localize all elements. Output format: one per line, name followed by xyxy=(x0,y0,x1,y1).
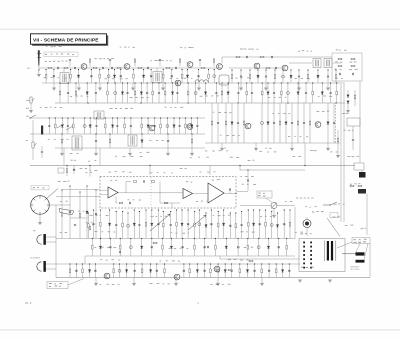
wire xyxy=(95,278,97,283)
junction BA12 xyxy=(163,211,164,212)
resistor TR0 xyxy=(231,75,233,79)
junction BA25 xyxy=(241,211,242,212)
resistor TR5 xyxy=(274,75,276,79)
resistor RL1 xyxy=(66,169,68,173)
junction BA33 xyxy=(289,209,290,210)
wire xyxy=(116,202,117,204)
wire lead MR4 xyxy=(237,103,239,143)
junction B2 xyxy=(75,82,76,83)
wire xyxy=(126,181,131,183)
diode D11 xyxy=(347,101,349,104)
value xyxy=(168,248,188,249)
wire lead BB13 xyxy=(225,239,227,257)
resistor BC17 xyxy=(210,269,212,273)
aux box left xyxy=(58,168,64,173)
ground xyxy=(328,280,332,282)
junction BB7 xyxy=(162,238,163,239)
wire lead LF0 xyxy=(61,190,63,239)
transformer T6 xyxy=(72,136,82,150)
capacitor C70 xyxy=(352,140,354,141)
diode B15 xyxy=(171,92,173,95)
wire xyxy=(221,57,223,64)
wire xyxy=(46,241,56,243)
refdes row xyxy=(94,57,114,60)
wire xyxy=(304,143,306,166)
wire lead BA30 xyxy=(271,212,273,239)
wire lead RC11 xyxy=(150,70,152,84)
diode BB17 xyxy=(267,246,269,249)
capacitor B25 xyxy=(251,93,253,94)
wire xyxy=(217,278,219,283)
resistor MR12 xyxy=(297,121,299,125)
resistor BA9 xyxy=(145,222,147,226)
resistor MR0 xyxy=(211,121,213,125)
capacitor BA1 xyxy=(92,224,94,225)
junction B35 xyxy=(330,82,331,83)
transistor Q2 xyxy=(124,64,130,70)
wire xyxy=(100,194,108,196)
diode BA7 xyxy=(133,223,135,226)
inductor L1 xyxy=(195,80,208,82)
wire top-right bus xyxy=(222,56,332,58)
junction TR4 xyxy=(265,69,266,70)
capacitor B6 xyxy=(114,92,117,95)
ground xyxy=(174,283,178,285)
transformer T1 xyxy=(60,73,69,84)
resistor B9 xyxy=(134,91,136,95)
junction RC18 xyxy=(214,69,215,70)
wire xyxy=(156,68,158,72)
junction BA30 xyxy=(271,211,272,212)
value row xyxy=(268,97,286,98)
wire stub xyxy=(179,61,181,67)
refdes row xyxy=(40,107,62,108)
wire lead BA8 xyxy=(138,212,140,239)
resistor R4 xyxy=(117,67,121,69)
wire xyxy=(61,148,63,153)
wire lead MR7 xyxy=(267,103,269,143)
wire lead BC13 xyxy=(183,264,185,278)
value row xyxy=(130,97,149,98)
wire link xyxy=(70,217,87,219)
wire lead BC27 xyxy=(282,264,284,278)
wire lead M17 xyxy=(166,118,168,134)
junction LF4 xyxy=(95,189,96,190)
junction M18 xyxy=(173,117,174,118)
resistor BA26 xyxy=(248,222,250,226)
wire lead RC4 xyxy=(90,70,92,84)
switch S3 xyxy=(57,124,73,130)
wire lead M9 xyxy=(112,118,114,134)
wire xyxy=(193,193,209,195)
capacitor TR8 xyxy=(298,76,300,77)
note 0 xyxy=(248,160,255,161)
switch S2 xyxy=(323,202,337,205)
wire lead B33 xyxy=(312,83,314,103)
capacitor C80 xyxy=(144,180,145,182)
value labels xyxy=(298,50,312,51)
ground xyxy=(326,88,330,90)
capacitor RC11 xyxy=(150,76,152,77)
note xyxy=(26,99,29,102)
junction M12 xyxy=(130,117,131,118)
capacitor CL1 xyxy=(73,169,75,170)
wire bus 3 xyxy=(55,102,345,104)
wire xyxy=(125,182,127,193)
capacitor BC1 xyxy=(75,270,77,271)
junction RL1 xyxy=(66,165,67,166)
junction M19 xyxy=(179,117,180,118)
junction RC10 xyxy=(143,69,144,70)
junction BA10 xyxy=(151,209,152,210)
junction BA3 xyxy=(109,209,110,210)
value row xyxy=(220,135,240,136)
junction bus3 xyxy=(335,102,336,103)
wire left riser xyxy=(55,237,57,278)
resistor RU5 xyxy=(179,59,181,62)
capacitor BA16 xyxy=(187,224,189,225)
capacitor CU0 xyxy=(69,60,71,61)
wire link xyxy=(56,196,100,198)
wire lead BB10 xyxy=(193,239,195,257)
wire lead B21 xyxy=(221,83,223,103)
diode B19 xyxy=(204,92,206,95)
wire lead TR5 xyxy=(274,70,276,83)
ground xyxy=(94,153,98,155)
wire lead BA20 xyxy=(210,210,212,239)
junction RC1 xyxy=(53,69,54,70)
value xyxy=(128,199,141,200)
resistor M1 xyxy=(55,124,57,128)
wire xyxy=(221,143,223,148)
wire xyxy=(198,83,200,88)
wire lead TR8 xyxy=(298,70,300,83)
junction BC10 xyxy=(150,263,151,264)
capacitor BA30 xyxy=(270,224,273,227)
transistor Q7 xyxy=(282,65,288,71)
wire lead BB17 xyxy=(268,239,270,257)
wire lead BB19 xyxy=(286,239,288,257)
junction BC22 xyxy=(247,263,248,264)
junction RC3 xyxy=(78,69,79,70)
junction BC19 xyxy=(225,263,226,264)
wire lead M20 xyxy=(184,118,186,134)
junction BB10 xyxy=(194,238,195,239)
note 1 xyxy=(71,159,76,162)
wire mid bus right xyxy=(205,142,340,144)
wire lead MR15 xyxy=(327,103,329,143)
wire lead BA2 xyxy=(99,210,101,239)
junction BA19 xyxy=(205,212,206,213)
ground xyxy=(190,153,194,155)
wire lead BA32 xyxy=(283,210,285,239)
op-amp U1A xyxy=(108,187,118,198)
refdes xyxy=(212,179,220,180)
junction BA20 xyxy=(211,209,212,210)
junction RC6 xyxy=(108,69,109,70)
resistor R21 xyxy=(260,56,264,58)
wire lead BA6 xyxy=(127,213,129,239)
wire xyxy=(327,143,329,148)
capacitor M7 xyxy=(95,126,97,127)
page bottom edge xyxy=(0,329,400,332)
capacitor C21 xyxy=(272,56,273,58)
jack J1 xyxy=(359,172,366,178)
wire jack drop xyxy=(366,194,368,236)
filter box xyxy=(332,53,362,81)
diode TR10 xyxy=(317,75,319,78)
resistor R83 xyxy=(119,202,122,204)
ground xyxy=(264,88,268,90)
junction BB13 xyxy=(226,238,227,239)
wire xyxy=(298,83,300,88)
resistor R90 xyxy=(350,185,354,187)
wire xyxy=(337,142,339,155)
junction M15 xyxy=(154,117,155,118)
junction RC2 xyxy=(70,69,71,70)
value xyxy=(241,231,255,232)
value xyxy=(211,284,231,285)
resistor R91 xyxy=(358,185,362,187)
junction M6 xyxy=(90,117,91,118)
wire bottom long bus xyxy=(56,277,370,279)
resistor R121 xyxy=(249,260,253,262)
junction M11 xyxy=(124,117,125,118)
value row xyxy=(288,136,308,137)
resistor B17 xyxy=(187,91,189,95)
ground xyxy=(60,153,64,155)
value xyxy=(99,284,119,285)
resistor MM2 xyxy=(109,139,111,143)
junction TR2 xyxy=(249,69,250,70)
antenna xyxy=(38,51,40,66)
junction bus3 xyxy=(87,102,88,103)
wire lead BC3 xyxy=(89,264,91,278)
wire xyxy=(159,182,161,189)
wire lead BC19 xyxy=(224,264,226,278)
wire lead BA7 xyxy=(133,210,135,239)
wire xyxy=(265,83,267,88)
refdes row xyxy=(316,111,329,112)
wire lead BC15 xyxy=(196,264,198,278)
capacitor M0 xyxy=(48,126,50,127)
note xyxy=(306,206,317,207)
potentiometer arrow P2 xyxy=(188,215,206,230)
capacitor C56 xyxy=(41,152,43,153)
junction M20 xyxy=(185,117,186,118)
junction M14 xyxy=(148,117,149,118)
value row xyxy=(44,77,67,78)
wire lead B22 xyxy=(227,83,229,103)
junction B17 xyxy=(188,82,189,83)
wire lead RC8 xyxy=(120,70,122,84)
wire lead MM3 xyxy=(141,134,143,148)
wire lead B27 xyxy=(267,83,269,103)
resistor R5 xyxy=(138,67,142,69)
transistor Q15 xyxy=(214,266,220,272)
refdes row xyxy=(120,47,135,48)
junction B29 xyxy=(281,82,282,83)
junction BC13 xyxy=(183,263,184,264)
wire lead M13 xyxy=(141,118,143,134)
junction B3 xyxy=(87,82,88,83)
capacitor BB9 xyxy=(182,247,184,248)
capacitor BC23 xyxy=(254,270,256,271)
transformer T5 xyxy=(94,111,104,119)
wire lead B20 xyxy=(215,83,217,103)
wire lead BC20 xyxy=(231,264,233,278)
wire xyxy=(229,67,282,69)
wire lead B6 xyxy=(114,83,116,103)
junction bus3 xyxy=(187,102,188,103)
wire lead M14 xyxy=(147,118,149,134)
junction BA6 xyxy=(127,212,128,213)
wire antenna lead xyxy=(38,66,40,71)
ground dial xyxy=(38,222,42,224)
ground xyxy=(132,283,136,285)
junction M17 xyxy=(167,117,168,118)
capacitor C3 xyxy=(103,67,104,69)
wire psu feed xyxy=(220,258,299,260)
diode M2 xyxy=(61,125,63,128)
wire lead BA14 xyxy=(176,210,178,239)
value labels xyxy=(240,49,258,50)
wire stub xyxy=(89,61,91,67)
value xyxy=(242,184,256,185)
refdes xyxy=(200,171,216,172)
potentiometer arrow P1 xyxy=(150,214,170,231)
resistor BB0 xyxy=(92,245,94,249)
junction M2 xyxy=(62,117,63,118)
value xyxy=(228,259,249,260)
value row xyxy=(48,138,69,141)
capacitor MR16 xyxy=(333,123,335,124)
wire lead RC6 xyxy=(108,70,110,84)
resistor B21 xyxy=(221,91,223,95)
wire lead BA0 xyxy=(87,213,89,239)
transformer T3 xyxy=(313,59,321,68)
diode BB8 xyxy=(170,246,172,249)
capacitor M5 xyxy=(83,125,86,128)
resistor LF0 xyxy=(61,212,63,216)
wire lead M3 xyxy=(67,118,69,134)
wire xyxy=(78,83,80,88)
junction BC6 xyxy=(119,263,120,264)
op-amp U1B xyxy=(183,189,193,199)
diode BA27 xyxy=(252,223,254,226)
wire lead MR10 xyxy=(285,103,287,143)
diode BC7 xyxy=(125,270,127,273)
junction BC25 xyxy=(269,263,270,264)
wire lead B10 xyxy=(140,83,142,103)
capacitor CU2 xyxy=(109,60,111,61)
wire lead MR16 xyxy=(333,103,335,143)
value row xyxy=(70,96,88,97)
capacitor M22 xyxy=(196,126,198,127)
junction B9 xyxy=(134,82,135,83)
potentiometer TONE xyxy=(271,203,277,209)
capacitor BB2 xyxy=(109,247,111,248)
junction B23 xyxy=(238,82,239,83)
diode BC10 xyxy=(149,270,151,273)
wire lead MR12 xyxy=(297,103,299,143)
wire lead M18 xyxy=(173,118,175,134)
capacitor B11 xyxy=(146,93,148,94)
wire xyxy=(41,153,43,158)
wire lead RC14 xyxy=(181,70,183,84)
resistor BC0 xyxy=(69,269,71,273)
dashed feed line xyxy=(335,105,337,143)
junction BA15 xyxy=(181,209,182,210)
note 2 xyxy=(90,170,98,171)
wire lead BA18 xyxy=(198,210,200,239)
wire lead BA10 xyxy=(151,210,153,239)
resistor LF2 xyxy=(79,213,81,217)
capacitor C121 xyxy=(120,251,121,253)
junction BC23 xyxy=(254,263,255,264)
wire lead RC0 xyxy=(45,70,47,84)
wire stub xyxy=(69,61,71,67)
resistor RC5 xyxy=(99,74,101,78)
diode B34 xyxy=(321,92,323,95)
capacitor B16 xyxy=(176,93,178,94)
junction BA14 xyxy=(176,209,177,210)
wire lead BA9 xyxy=(145,210,147,239)
wire xyxy=(162,83,164,88)
junction BA31 xyxy=(277,212,278,213)
wire lead MR3 xyxy=(231,103,233,143)
mains plug xyxy=(356,252,365,255)
diode RC10 xyxy=(142,75,144,78)
transistor Q11 xyxy=(315,122,321,128)
wire xyxy=(291,143,293,148)
note row xyxy=(259,151,276,152)
resistor B5 xyxy=(107,91,109,95)
junction BC7 xyxy=(126,263,127,264)
wire lead BA5 xyxy=(122,212,124,239)
capacitor M3 xyxy=(67,126,69,127)
junction BC9 xyxy=(142,263,143,264)
capacitor RC6 xyxy=(107,75,110,78)
svg-text:FM: FM xyxy=(26,116,29,118)
wire xyxy=(129,148,131,153)
junction MM0 xyxy=(61,133,62,134)
junction RC7 xyxy=(114,69,115,70)
value xyxy=(160,260,180,261)
wire lead BC4 xyxy=(94,264,96,278)
capacitor BA32 xyxy=(283,224,285,225)
capacitor C81 xyxy=(230,188,231,190)
diode M6 xyxy=(89,125,91,128)
diode M21 xyxy=(190,125,192,128)
resistor BA12 xyxy=(163,223,165,227)
potentiometer P2 xyxy=(30,97,35,103)
junction BB11 xyxy=(204,238,205,239)
refdes xyxy=(186,181,192,182)
capacitor BA4 xyxy=(115,225,117,226)
resistor R7 xyxy=(201,67,205,69)
note row xyxy=(190,157,209,158)
wire xyxy=(160,202,180,204)
wire lead BA11 xyxy=(157,210,159,239)
junction BC28 xyxy=(289,263,290,264)
op-amp U1C xyxy=(208,183,224,203)
resistor MR9 xyxy=(279,121,281,125)
wire lead B9 xyxy=(134,83,136,103)
connector pins xyxy=(303,242,312,269)
wire lead MR14 xyxy=(309,103,311,143)
wire lead B28 xyxy=(273,83,275,103)
